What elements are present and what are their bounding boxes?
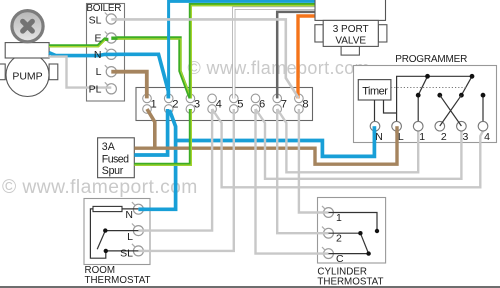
- svg-text:3: 3: [194, 98, 200, 110]
- wire: junction 2 blue down to room stat N: [145, 110, 176, 209]
- wire: valve blue N to junction 2 top: [169, 1, 315, 98]
- wire: junction 2 blue down to fused spur: [134, 109, 167, 155]
- crossover 3-2: [440, 95, 462, 126]
- svg-text:5: 5: [237, 98, 243, 110]
- svg-text:3: 3: [462, 131, 468, 143]
- wire: junction 7 gray to programmer 1: [277, 109, 418, 172]
- svg-text:© www.flameport.com: © www.flameport.com: [188, 58, 371, 78]
- wire: junction 3 green down to fused spur: [134, 109, 190, 164]
- programmer pivot dots: [416, 74, 486, 98]
- svg-text:SL: SL: [89, 14, 102, 26]
- valve body: [323, 20, 378, 46]
- svg-text:1: 1: [419, 131, 425, 143]
- room stat left rail: [90, 209, 105, 258]
- svg-text:Timer: Timer: [362, 86, 388, 98]
- wire: live rail brown spur to programmer L: [134, 131, 397, 164]
- pump body: [0, 43, 58, 97]
- pump left flange: [0, 64, 5, 80]
- crossover 2-3: [440, 95, 462, 126]
- wire: pump live gray to boiler PL: [48, 57, 108, 88]
- wire: valve earth green to junction 3 top: [190, 5, 314, 99]
- wire: junction 1 brown down to live rail: [147, 109, 155, 150]
- timer box: [358, 80, 391, 100]
- svg-text:L: L: [96, 66, 102, 78]
- svg-text:N: N: [125, 209, 133, 221]
- wire: valve orange to junction 8 top: [298, 16, 315, 98]
- junction box strip: [136, 88, 313, 121]
- cylinder thermostat box: [318, 198, 386, 264]
- programmer terminals N L 1 2 3 4: [370, 121, 488, 131]
- svg-text:PUMP: PUMP: [12, 71, 42, 83]
- wire: valve dark gray to junction 7 top: [277, 12, 314, 99]
- wire: boiler E green to junction 3 top: [116, 38, 190, 98]
- wire: valve white to junction 5 top: [234, 8, 315, 98]
- cyl line from 2: [329, 232, 361, 234]
- valve bottom stub: [341, 46, 359, 55]
- wire stubs into cylinder stat terminal centers: [323, 211, 329, 213]
- cyl line from 1: [329, 213, 378, 232]
- wire stubs into programmer N L terminal centers: [373, 126, 377, 133]
- svg-text:4: 4: [484, 131, 490, 143]
- wire: junction 5 gray to room stat SL: [145, 109, 234, 251]
- wire stubs into boiler terminal centers: [105, 19, 117, 87]
- svg-text:3A: 3A: [102, 141, 116, 153]
- wire: boiler N blue to junction 2 top: [116, 54, 168, 98]
- boiler box: [87, 4, 125, 102]
- svg-text:E: E: [94, 32, 101, 44]
- valve right flange: [378, 25, 387, 42]
- wire: pump neutral blue to boiler N: [49, 53, 108, 56]
- svg-text:THERMOSTAT: THERMOSTAT: [85, 275, 151, 286]
- 3 port valve top box: [315, 0, 386, 20]
- room stat terminal ticks: [132, 202, 135, 247]
- svg-text:VALVE: VALVE: [335, 35, 366, 46]
- contact stem 4: [482, 95, 484, 122]
- room stat L line: [105, 230, 138, 232]
- timer linkage dotted: [391, 87, 466, 89]
- contact stem 1: [417, 95, 419, 122]
- close icon top left: [12, 11, 43, 42]
- switch arm 1: [418, 76, 427, 95]
- svg-text:6: 6: [259, 98, 265, 110]
- cylinder stat internal lines: [329, 213, 378, 254]
- svg-text:Spur: Spur: [102, 165, 124, 177]
- svg-text:C: C: [336, 253, 344, 265]
- cylinder stat terminal ticks: [322, 206, 325, 251]
- svg-text:4: 4: [216, 98, 222, 110]
- cylinder stat contact dots: [375, 229, 379, 233]
- wire: junction 8 gray to cylinder stat 1: [299, 109, 325, 213]
- svg-text:L: L: [127, 231, 133, 243]
- cyl line from C: [329, 253, 369, 255]
- wire stubs into room stat terminal centers: [138, 229, 145, 231]
- room stat anticipator resistor: [93, 206, 122, 211]
- svg-text:1: 1: [151, 98, 157, 110]
- wire: blue overlap into room stat N terminal: [138, 207, 145, 211]
- L feed rail: [397, 76, 472, 122]
- wire: junction 7 gray to cylinder stat 2: [277, 109, 325, 233]
- bottom border line: [0, 286, 500, 288]
- svg-text:N: N: [375, 131, 383, 143]
- wire: blue branch to programmer N: [176, 131, 375, 156]
- svg-text:3 PORT: 3 PORT: [333, 24, 369, 35]
- svg-text:Fused: Fused: [102, 154, 129, 166]
- svg-text:PROGRAMMER: PROGRAMMER: [395, 54, 467, 65]
- wire: junction 6 gray to cylinder stat C: [256, 109, 326, 254]
- svg-text:L: L: [398, 131, 404, 143]
- valve left flange: [315, 25, 323, 42]
- svg-text:2: 2: [336, 233, 342, 245]
- room stat terminals N L SL: [133, 204, 143, 256]
- svg-text:2: 2: [172, 98, 178, 110]
- svg-text:© www.flameport.com: © www.flameport.com: [2, 177, 198, 198]
- wire: junction 4 gray to programmer 4: [212, 109, 483, 187]
- room thermostat box: [84, 199, 150, 265]
- wire: junction 4 gray to room stat L: [145, 109, 213, 231]
- cylinder stat terminals 1 2 C: [324, 208, 334, 259]
- programmer box: [354, 66, 497, 143]
- svg-text:N: N: [94, 49, 102, 61]
- room stat contact dots: [103, 228, 107, 232]
- svg-text:SL: SL: [120, 248, 133, 260]
- svg-text:THERMOSTAT: THERMOSTAT: [317, 277, 383, 288]
- room stat switch arm (open): [97, 231, 105, 250]
- wire: boiler L brown to junction 1 top: [116, 72, 147, 99]
- svg-text:2: 2: [441, 131, 447, 143]
- boiler terminals SL E N L PL: [106, 14, 116, 94]
- fused spur box: [98, 138, 135, 178]
- pump terminal box: [5, 43, 49, 58]
- svg-text:7: 7: [281, 98, 287, 110]
- timer to N wire: [374, 100, 376, 122]
- junction terminals 1-8 top and bottom rows: [143, 94, 304, 113]
- cyl switch arm C-2: [360, 233, 368, 253]
- svg-text:BOILER: BOILER: [86, 3, 121, 14]
- wire: boiler SL gray to junction 8 top: [116, 19, 299, 98]
- resistor lead to N: [122, 208, 138, 210]
- programmer internal switch linkage: [375, 76, 484, 122]
- boiler terminal ticks: [105, 13, 108, 86]
- wire: pump earth green to boiler E: [49, 39, 109, 46]
- svg-text:1: 1: [336, 212, 342, 224]
- room stat SL line: [106, 250, 139, 252]
- timer to L wire: [384, 100, 397, 113]
- svg-text:8: 8: [302, 98, 308, 110]
- room stat internal lines: [90, 209, 138, 258]
- switch arm 2: [461, 76, 472, 95]
- wire: junction 6 gray to programmer 3: [256, 109, 462, 179]
- pump right flange: [49, 64, 58, 80]
- svg-text:PL: PL: [89, 84, 102, 96]
